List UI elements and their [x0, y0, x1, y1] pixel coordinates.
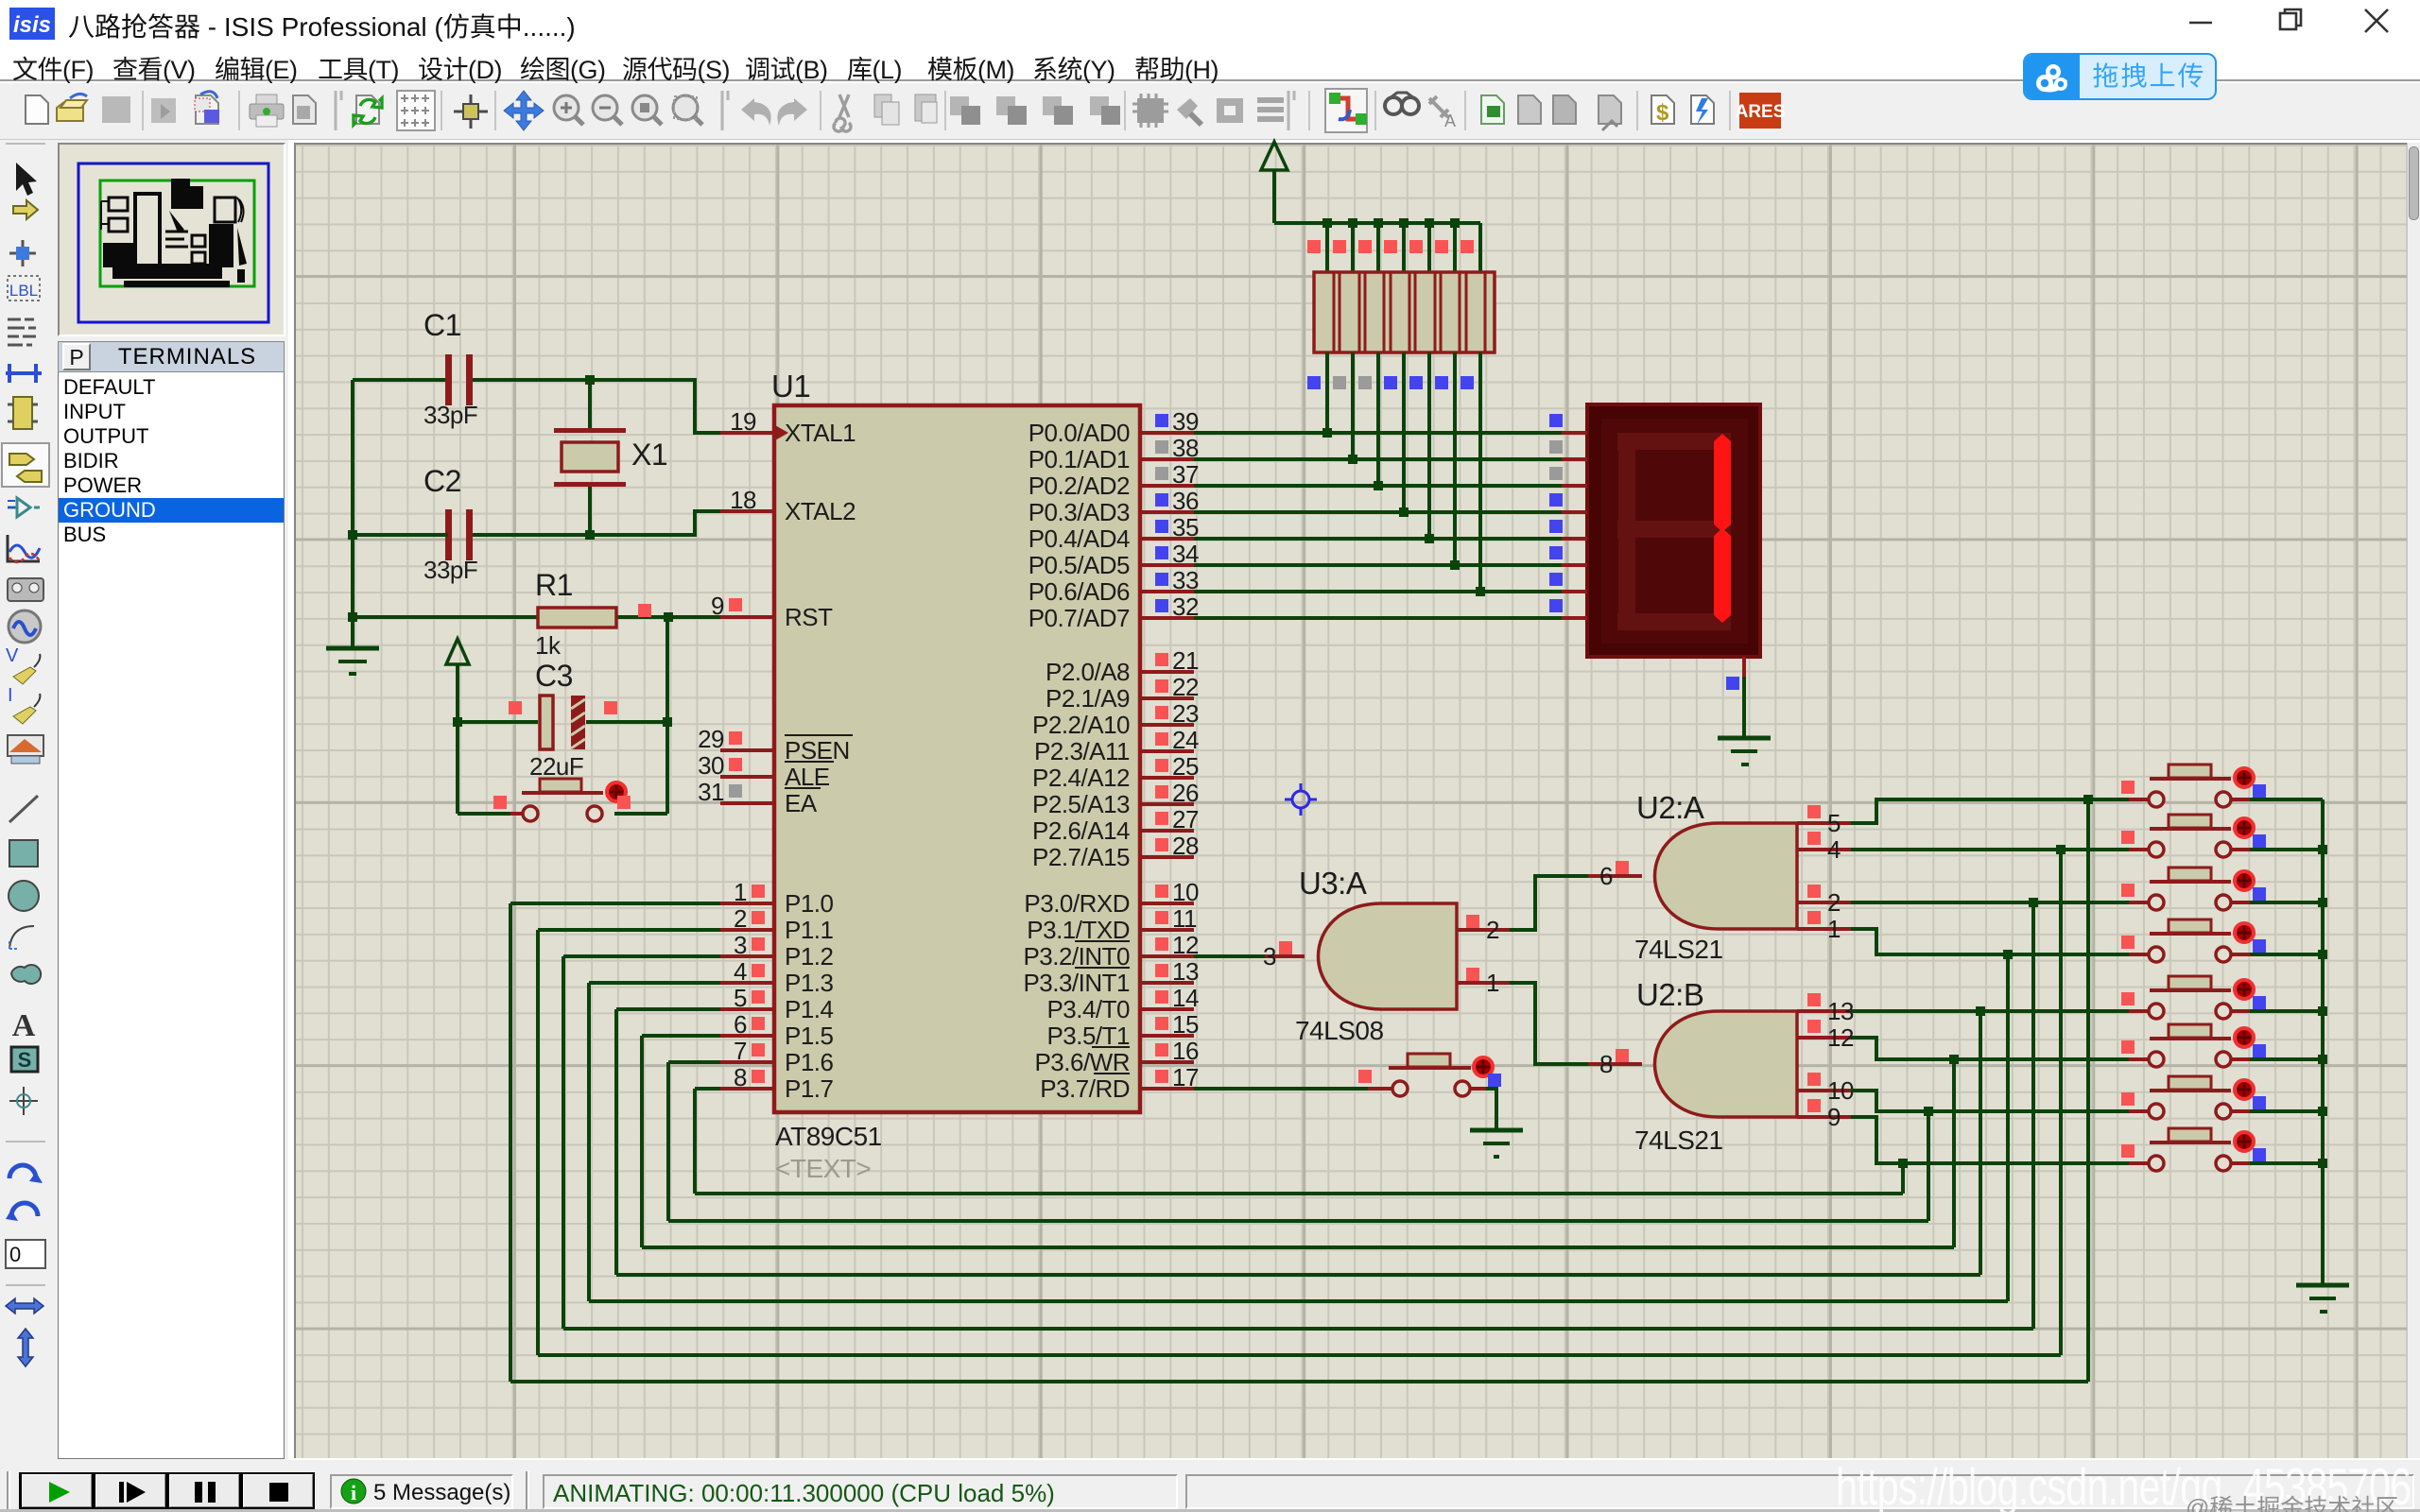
node button K8 branch — [1898, 1159, 1908, 1168]
node rail junction 6 — [1450, 218, 1460, 228]
push button K5 — [2129, 976, 2254, 1019]
wire C1 top net — [353, 378, 448, 382]
pin 27 P2.6/A14 U1 right — [1032, 805, 1199, 845]
pin 7 P1.6 U1 left — [720, 1037, 834, 1076]
wire bus K2 to P1 — [538, 1353, 2061, 1357]
node rail K4 — [2318, 950, 2327, 959]
pin state square RN7 top — [1461, 240, 1474, 253]
pin 4 P1.3 U1 left — [720, 957, 834, 997]
push button K3 — [2129, 868, 2254, 910]
pin 26 P2.5/A13 U1 right — [1032, 779, 1199, 818]
pin 11 P3.1/TXD U1 right — [1027, 904, 1197, 944]
pin display seg 8 — [1562, 616, 1587, 620]
svg-text:I: I — [8, 685, 13, 706]
pin state square display 6 — [1549, 546, 1563, 559]
cursor crosshair — [1285, 783, 1317, 816]
wire resistor RN6 bottom lead — [1453, 352, 1457, 565]
wire P1.3 vertical — [587, 983, 591, 1301]
pin 37 P0.2/AD2 U1 right — [1028, 460, 1199, 500]
pin state square RN6 top — [1435, 240, 1448, 253]
wire resistor RN4 bottom lead — [1402, 352, 1406, 512]
pin display seg 6 — [1562, 563, 1587, 567]
pin 8 U2:B output — [1588, 1062, 1642, 1066]
wire stair K5 vertical — [1979, 1011, 1982, 1275]
wire stair K1 vertical — [2086, 799, 2090, 1382]
ground button K9 — [1470, 1130, 1523, 1157]
push button K4 — [2129, 919, 2254, 962]
ground display — [1718, 738, 1771, 765]
push button RESET — [510, 779, 626, 821]
wire P1.4 vertical — [614, 1009, 618, 1275]
pin state square display 8 — [1549, 599, 1563, 612]
pin state square display 1 — [1549, 414, 1563, 427]
svg-text:i: i — [351, 1481, 356, 1504]
wire button K3 to rail — [2250, 901, 2323, 904]
node button K6 branch — [1949, 1055, 1959, 1064]
wire P1.5 vertical — [640, 1036, 644, 1247]
wire P1.6 vertical — [666, 1062, 670, 1221]
wire C3 left vertical — [456, 722, 459, 814]
op-amp U2:B 74LS21 — [1634, 977, 1797, 1155]
pin state square display 5 — [1549, 520, 1563, 533]
wire button K6 to rail — [2250, 1057, 2323, 1061]
pin state squares button K3 — [2121, 884, 2135, 897]
resistor R1 — [535, 568, 616, 660]
wire P0.4 to display — [1194, 537, 1562, 541]
wire stair K7 vertical — [1927, 1111, 1930, 1221]
wire P0.0 to display — [1194, 431, 1562, 435]
wire P1.2 vertical — [562, 956, 565, 1329]
svg-text:A: A — [12, 1008, 36, 1043]
wire P1.7 stub row — [695, 1087, 720, 1091]
wire U2:A out to U3:A in2 — [1510, 876, 1588, 930]
pin state squares button K9 — [1358, 1070, 1372, 1083]
pin 39 P0.0/AD0 U1 right — [1028, 407, 1199, 447]
pin state square RN1 bottom — [1307, 376, 1321, 389]
svg-text:V: V — [6, 645, 19, 666]
push button K2 — [2129, 815, 2254, 857]
pin state square RN3 top — [1358, 240, 1372, 253]
wire stair K8 vertical — [1901, 1163, 1905, 1194]
svg-text:isis: isis — [13, 12, 51, 38]
pin 5 U2:A — [1797, 821, 1851, 825]
node button K4 branch — [2003, 950, 2013, 959]
pin 21 P2.0/A8 U1 right — [1046, 646, 1199, 686]
crystal X1 — [554, 380, 667, 535]
pin state square display 7 — [1549, 573, 1563, 586]
ground right rail — [2296, 1285, 2349, 1312]
node rail junction 1 — [1322, 218, 1332, 228]
pin 19 XTAL1 U1 left — [720, 407, 856, 447]
wire C2 net — [353, 533, 448, 537]
wire P1.4 stub row — [616, 1007, 720, 1011]
pin 36 P0.3/AD3 U1 right — [1028, 487, 1199, 526]
node crystal bottom junction — [585, 530, 595, 540]
pin 33 P0.6/AD6 U1 right — [1028, 566, 1199, 606]
pin 12 P3.2/INT0 U1 right — [1023, 931, 1199, 971]
node P0.2 junction — [1374, 481, 1383, 490]
pin 1 P1.0 U1 left — [720, 878, 834, 918]
op-amp U2:A 74LS21 — [1634, 790, 1797, 964]
pin state square display 4 — [1549, 493, 1563, 507]
wire P1.1 stub row — [538, 928, 720, 932]
svg-text:LBL: LBL — [9, 282, 38, 300]
node rail K6 — [2318, 1055, 2327, 1064]
pin state square R1 right — [638, 604, 651, 617]
wire U2:A pin5 to button 1 — [1851, 799, 2129, 823]
pin 34 P0.5/AD5 U1 right — [1028, 540, 1199, 579]
pin 10 U2:B — [1797, 1089, 1851, 1092]
wire resistor RN5 top lead — [1427, 223, 1431, 272]
pin state squares reset button — [493, 796, 507, 809]
pin state square display 3 — [1549, 467, 1563, 480]
pin 38 P0.1/AD1 U1 right — [1028, 434, 1199, 473]
wire U2:B out to U3:A in1 — [1510, 983, 1588, 1064]
pin 18 XTAL2 U1 left — [720, 486, 856, 525]
pin 9 RST U1 left — [711, 592, 833, 631]
wire RST net — [353, 615, 538, 619]
pin 17 P3.7/RD U1 right — [1040, 1063, 1199, 1103]
wire P0.2 to display — [1194, 484, 1562, 488]
node rail K7 — [2318, 1107, 2327, 1116]
wire P1.7 vertical — [693, 1089, 697, 1194]
node rail junction 3 — [1374, 218, 1383, 228]
capacitor C3 electrolytic — [529, 659, 585, 781]
wire button K7 to rail — [2250, 1109, 2323, 1113]
wire resistor RN3 bottom lead — [1376, 352, 1380, 486]
svg-text:$: $ — [1656, 100, 1669, 126]
node rail junction 5 — [1425, 218, 1434, 228]
pin 8 P1.7 U1 left — [720, 1063, 834, 1103]
wire bus K1 to P1 — [510, 1380, 2088, 1383]
node rail K2 — [2318, 845, 2327, 854]
capacitor C2 — [423, 464, 477, 584]
wire R1 to button vertical — [665, 617, 669, 814]
wire resistor RN2 top lead — [1351, 223, 1355, 272]
wire button K4 to rail — [2250, 953, 2323, 956]
wire reset button net — [458, 812, 510, 816]
pin display seg 3 — [1562, 484, 1587, 488]
node crystal top junction — [585, 375, 595, 385]
pin 6 P1.5 U1 left — [720, 1010, 834, 1050]
pin 4 U2:A — [1797, 848, 1851, 851]
pin display seg 5 — [1562, 537, 1587, 541]
wire U2:B pin13 to button 5 — [1851, 1009, 2129, 1013]
pin 14 P3.4/T0 U1 right — [1046, 984, 1199, 1023]
wire P1.6 stub row — [668, 1060, 720, 1064]
pin state square RN4 bottom — [1384, 376, 1397, 389]
pin state square RN2 bottom — [1333, 376, 1346, 389]
pin 5 P1.4 U1 left — [720, 984, 834, 1023]
pin display seg 4 — [1562, 510, 1587, 514]
node P0.4 junction — [1425, 534, 1434, 543]
wire bus K4 to P1 — [589, 1299, 2008, 1303]
wire U2:B pin10 to button 7 — [1851, 1091, 2129, 1111]
wire P0.6 to display — [1194, 590, 1562, 593]
pin 23 P2.2/A10 U1 right — [1032, 699, 1199, 739]
wire XTAL1 net — [590, 380, 720, 433]
pin 12 U2:B — [1797, 1036, 1851, 1039]
svg-text:0: 0 — [9, 1243, 21, 1266]
pin 25 P2.4/A12 U1 right — [1032, 752, 1199, 792]
pin 6 U2:A output — [1588, 874, 1642, 878]
wire resistor RN7 top lead — [1478, 223, 1482, 272]
wire resistor RN5 bottom lead — [1427, 352, 1431, 539]
wire P0.3 to display — [1194, 510, 1562, 514]
wire P1.5 stub row — [642, 1034, 720, 1038]
pin state squares C3 — [509, 701, 522, 714]
node button K3 branch — [2029, 898, 2038, 907]
pin 9 U2:B — [1797, 1115, 1851, 1119]
op-amp U3:A 74LS08 — [1295, 866, 1457, 1045]
node P0.6 junction — [1476, 587, 1485, 596]
pin state squares button K6 — [2121, 1040, 2135, 1054]
pin 15 P3.5/T1 U1 right — [1046, 1010, 1199, 1050]
pin 1 U3:A — [1457, 981, 1510, 985]
wire U2:A pin1 to button 4 — [1851, 929, 2129, 954]
pin 13 U2:B — [1797, 1009, 1851, 1013]
wire button K9 to ground — [1486, 1089, 1496, 1130]
pin 35 P0.4/AD4 U1 right — [1028, 513, 1199, 553]
wire P0.1 to display — [1194, 457, 1562, 461]
node C3 junctions — [453, 717, 462, 727]
wire P1.2 stub row — [563, 954, 720, 958]
pin state square display 2 — [1549, 440, 1563, 454]
svg-text:S: S — [18, 1048, 32, 1072]
node button K2 branch — [2056, 845, 2066, 854]
push button K7 — [2129, 1076, 2254, 1119]
wire bus K7 to P1 — [668, 1219, 1928, 1223]
pin 24 P2.3/A11 U1 right — [1034, 726, 1199, 765]
wire U2:A pin2 to button 3 — [1851, 901, 2129, 904]
pin state squares button K1 — [2121, 781, 2135, 794]
wire resistor RN2 bottom lead — [1351, 352, 1355, 459]
wire stair K2 vertical — [2059, 850, 2063, 1355]
wire button K1 to rail — [2250, 798, 2323, 801]
wire stair K6 vertical — [1952, 1059, 1956, 1247]
pin display common — [1742, 657, 1746, 677]
ground crystal — [326, 648, 379, 674]
wire P1.0 vertical — [509, 903, 512, 1382]
node rail K5 — [2318, 1006, 2327, 1016]
push button K8 — [2129, 1128, 2254, 1171]
pin state square RN2 top — [1333, 240, 1346, 253]
pin state square RN7 bottom — [1461, 376, 1474, 389]
wire bus K5 to P1 — [616, 1273, 1980, 1277]
wire P0.7 to display — [1194, 616, 1562, 620]
pin state squares button K5 — [2121, 992, 2135, 1005]
wire resistor RN6 top lead — [1453, 223, 1457, 272]
pin 1 U2:A — [1797, 927, 1851, 931]
node button K7 branch — [1924, 1107, 1933, 1116]
pin 3 P1.2 U1 left — [720, 931, 834, 971]
wire P1.1 vertical — [536, 930, 540, 1355]
wire button K8 to rail — [2250, 1161, 2323, 1165]
op-amp U1 AT89C51 body — [771, 369, 1140, 1183]
wire P3.7 to button K9 — [1194, 1087, 1368, 1091]
svg-text:ARES: ARES — [1736, 102, 1786, 122]
wire C3 net — [458, 720, 538, 724]
pin 30 ALE U1 left — [698, 751, 834, 791]
pin 31 EA U1 left — [698, 778, 821, 817]
wire U2:B pin12 to button 6 — [1851, 1038, 2129, 1059]
pin state square RN6 bottom — [1435, 376, 1448, 389]
wire button K5 to rail — [2250, 1009, 2323, 1013]
wire P0.5 to display — [1194, 563, 1562, 567]
node rail junction 4 — [1399, 218, 1409, 228]
pin 29 PSEN U1 left — [698, 725, 853, 765]
wire VCC rail — [1274, 221, 1480, 225]
push button K6 — [2129, 1024, 2254, 1067]
pin state square RN5 bottom — [1409, 376, 1423, 389]
wire display common to ground — [1742, 677, 1746, 738]
wire resistor RN4 top lead — [1402, 223, 1406, 272]
wire stair K3 vertical — [2031, 902, 2035, 1329]
wire left vertical to ground — [351, 380, 354, 646]
wire bus K8 to P1 — [695, 1192, 1903, 1195]
pin 13 P3.3/INT1 U1 right — [1023, 957, 1199, 997]
pin state squares button K4 — [2121, 936, 2135, 949]
node P0.0 junction — [1322, 428, 1332, 438]
node rail K8 — [2318, 1159, 2327, 1168]
pin 22 P2.1/A9 U1 right — [1046, 673, 1199, 713]
pin 28 P2.7/A15 U1 right — [1032, 832, 1199, 871]
7seg display body — [1587, 404, 1760, 657]
pin 16 P3.6/WR U1 right — [1034, 1037, 1198, 1076]
pin state square RN3 bottom — [1358, 376, 1372, 389]
resistor pack RN1 body — [1314, 272, 1495, 352]
node rail junction 2 — [1348, 218, 1357, 228]
pin state square RN5 top — [1409, 240, 1423, 253]
node rail K3 — [2318, 898, 2327, 907]
power arrow VCC resistor pack — [1261, 142, 1288, 223]
wire U2:B pin9 to button 8 — [1851, 1117, 2129, 1163]
pin display seg 2 — [1562, 457, 1587, 461]
wire P1.0 stub row — [510, 902, 720, 905]
pin 3 U3:A output — [1265, 954, 1305, 958]
pin state squares button K2 — [2121, 831, 2135, 844]
wire resistor RN7 bottom lead — [1478, 352, 1482, 592]
pin state square display common — [1726, 677, 1739, 690]
node P0.1 junction — [1348, 455, 1357, 464]
node P0.3 junction — [1399, 507, 1409, 517]
wire right rail — [2321, 799, 2325, 1285]
power arrow VCC C3 — [446, 639, 469, 722]
pin display seg 7 — [1562, 590, 1587, 593]
wire button K2 to rail — [2250, 848, 2323, 851]
pin state squares button K7 — [2121, 1092, 2135, 1106]
wire P1.3 stub row — [589, 981, 720, 985]
wire P3.2 to U3:A pin3 — [1194, 954, 1265, 958]
pin 32 P0.7/AD7 U1 right — [1028, 593, 1199, 632]
pin 2 U2:A — [1797, 901, 1851, 904]
wire resistor RN1 bottom lead — [1325, 352, 1329, 433]
wire stair K4 vertical — [2006, 954, 2010, 1301]
pin display seg 1 — [1562, 431, 1587, 435]
pin state squares button K8 — [2121, 1144, 2135, 1158]
node P0.5 junction — [1450, 560, 1460, 570]
wire bus K6 to P1 — [642, 1246, 1954, 1249]
wire resistor RN1 top lead — [1325, 223, 1329, 272]
pin 2 P1.1 U1 left — [720, 904, 834, 944]
wire bus K3 to P1 — [563, 1327, 2033, 1331]
pin 10 P3.0/RXD U1 right — [1024, 878, 1199, 918]
pin state square RN4 top — [1384, 240, 1397, 253]
node button K1 branch — [2083, 795, 2093, 804]
node RST junction — [664, 612, 673, 622]
push button K9 — [1368, 1054, 1493, 1096]
pin state square RN1 top — [1307, 240, 1321, 253]
capacitor C1 — [423, 308, 477, 429]
wire resistor RN3 top lead — [1376, 223, 1380, 272]
push button K1 — [2129, 765, 2254, 807]
svg-text:A: A — [1444, 112, 1456, 130]
wire U2:A pin4 to button 2 — [1851, 848, 2129, 851]
wire XTAL2 net — [590, 511, 720, 535]
node button K5 branch — [1976, 1006, 1985, 1016]
pin 2 U3:A — [1457, 928, 1510, 932]
